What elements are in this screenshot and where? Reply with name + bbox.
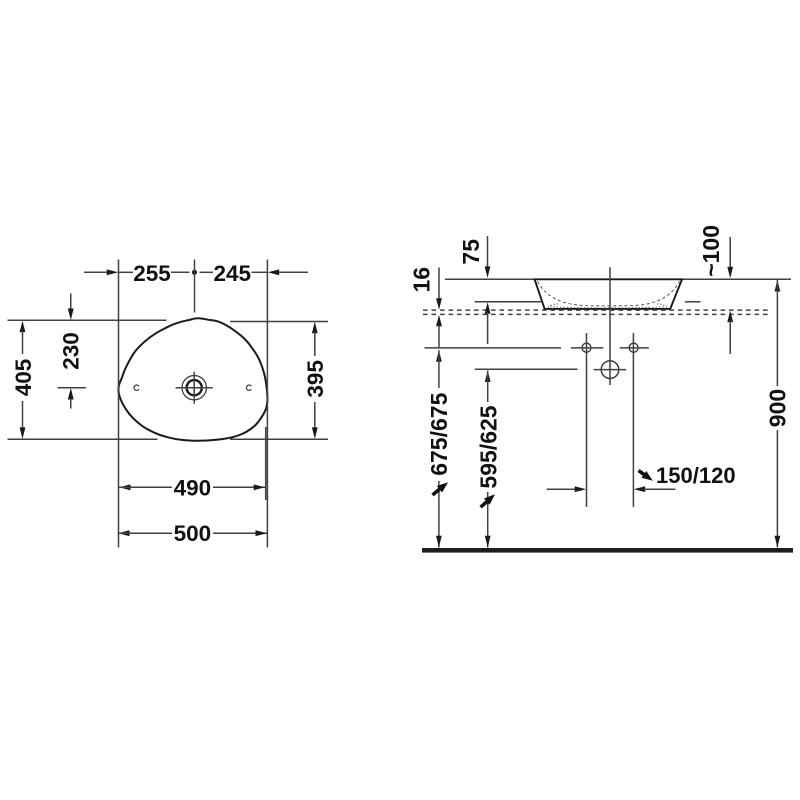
faucet hole right circle	[629, 343, 638, 352]
basin inner bowl dashed curve	[538, 282, 680, 306]
dimension 395 line	[312, 322, 318, 334]
svg-text:245: 245	[214, 261, 252, 286]
floor line	[422, 548, 793, 553]
water level line right	[685, 301, 701, 303]
diagonal arrow 595/625	[481, 500, 489, 507]
rim level line left segment	[445, 278, 535, 280]
svg-text:395: 395	[303, 360, 328, 398]
basin bottom dotted line	[550, 307, 665, 308]
svg-text:230: 230	[59, 332, 84, 370]
faucet hole right crosshair	[620, 347, 649, 349]
dimension 75 lower arrow	[485, 302, 491, 314]
extension line right vertical	[266, 260, 268, 548]
dimension ~100 lower arrow	[727, 311, 733, 323]
vertical centerline of side view	[609, 267, 611, 385]
dimension 405 line	[20, 321, 26, 333]
basin profile (side view)	[535, 279, 682, 309]
bottom tangent line right segment	[230, 438, 328, 440]
dimension 255/245 line	[84, 271, 107, 273]
svg-text:75: 75	[458, 239, 484, 265]
dimension 230 lower arrow	[68, 388, 74, 400]
drain crosshair vertical	[193, 372, 195, 404]
rim level line right segment	[682, 278, 791, 280]
dimension 500 line	[118, 530, 130, 536]
washbasin outline (top view)	[118, 318, 267, 440]
faucet hole line long segment	[425, 347, 562, 349]
dimension 230 upper arrow	[70, 294, 72, 310]
svg-text:255: 255	[133, 261, 171, 286]
svg-text:500: 500	[174, 521, 212, 546]
drain outer circle (top view)	[182, 376, 206, 400]
svg-text:~100: ~100	[698, 225, 724, 277]
dimension 255/245 center dot	[192, 270, 197, 275]
svg-text:150/120: 150/120	[656, 463, 736, 488]
dimension 16 lower arrow	[436, 315, 442, 327]
svg-text:675/675: 675/675	[426, 392, 452, 475]
top tangent line right segment	[230, 321, 328, 323]
svg-text:405: 405	[11, 359, 36, 397]
mixer hole circle	[601, 361, 619, 379]
drain inner circle (top view)	[187, 380, 202, 395]
counter top dashed line	[423, 309, 771, 311]
diagonal arrow 150/120	[639, 471, 646, 476]
dimension 595/625 line	[485, 371, 491, 383]
dimension 75 line	[487, 236, 489, 267]
dimension 16 upper line	[438, 268, 440, 300]
svg-text:595/625: 595/625	[475, 405, 501, 488]
svg-text:900: 900	[764, 389, 790, 427]
diagonal arrow 675/675	[433, 488, 442, 495]
faucet hole left circle	[582, 343, 591, 352]
fixing mark left (c)	[134, 385, 139, 390]
counter bottom dashed line	[423, 313, 771, 315]
dimension 490 line	[119, 484, 131, 490]
bottom tangent line left segment	[8, 438, 158, 440]
mixer hole line segment	[475, 368, 578, 370]
extension line right inner (490)	[265, 427, 267, 500]
fixing mark right (c)	[246, 385, 251, 390]
dimension 675/675 line	[436, 350, 442, 362]
centerline through dot	[194, 260, 196, 313]
basin bottom corner dots left	[548, 304, 560, 308]
water level line left	[475, 301, 543, 303]
svg-text:490: 490	[174, 475, 212, 500]
extension line left vertical	[118, 260, 120, 548]
dimension ~100 line	[729, 237, 731, 268]
dimension 900 line	[775, 280, 781, 292]
basin bottom corner dots right	[655, 304, 667, 308]
top tangent line left segment	[8, 319, 167, 321]
svg-text:16: 16	[409, 267, 435, 293]
mixer hole crosshair horizontal	[594, 369, 627, 371]
faucet hole left crosshair	[571, 347, 604, 349]
drain crosshair horizontal	[176, 387, 213, 389]
drain center reference tick	[58, 387, 87, 389]
dimension 150/120 line right	[634, 486, 646, 492]
dimension 150/120 line left	[547, 488, 577, 490]
